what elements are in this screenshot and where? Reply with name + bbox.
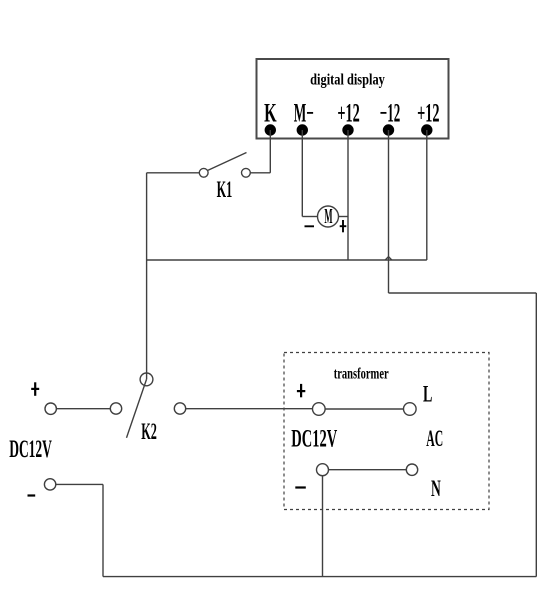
wire motor right	[339, 216, 349, 218]
switch K2 right contact	[174, 403, 185, 414]
svg-text:K1: K1	[217, 177, 233, 203]
svg-text:K: K	[264, 99, 277, 128]
wire K2 to transformer	[186, 408, 313, 410]
svg-text:M: M	[324, 206, 332, 228]
svg-text:transformer: transformer	[334, 364, 389, 382]
wire + to L	[325, 408, 403, 410]
motor minus sign	[305, 225, 315, 227]
terminal dot K	[265, 124, 276, 135]
wire right vertical	[535, 293, 537, 577]
svg-text:digital display: digital display	[310, 71, 385, 89]
svg-text:K2: K2	[141, 419, 157, 445]
svg-text:N: N	[431, 476, 441, 502]
motor M circle	[318, 206, 339, 227]
transformer N terminal	[406, 464, 417, 475]
switch K2 blade	[127, 379, 147, 437]
wire bottom bus	[103, 576, 536, 578]
transformer plus sign	[300, 384, 302, 397]
motor plus sign	[340, 225, 347, 227]
svg-text:DC12V: DC12V	[291, 426, 337, 453]
svg-text:M−: M−	[294, 100, 314, 128]
wire +12a terminal down	[347, 130, 349, 260]
terminal dot -12	[383, 124, 394, 135]
terminal dot M-	[297, 124, 308, 135]
switch K1 blade	[208, 153, 247, 171]
svg-text:L: L	[423, 382, 432, 407]
transformer minus sign	[295, 486, 306, 488]
transformer - terminal	[317, 464, 329, 476]
terminal dot +12b	[421, 124, 432, 135]
transformer + terminal	[313, 403, 326, 416]
wire -12 horizontal	[389, 292, 537, 294]
wire left vertical	[146, 173, 148, 380]
wire +12b terminal down	[426, 130, 428, 260]
wire M- terminal down	[301, 130, 303, 217]
svg-text:+12: +12	[337, 98, 359, 128]
wire motor left	[302, 216, 317, 218]
wire hop at crossing	[385, 257, 392, 260]
DC12V minus sign	[28, 494, 36, 496]
switch K2 pivot contact	[140, 373, 153, 386]
terminal dot +12a	[342, 124, 353, 135]
wire - terminal down	[102, 484, 104, 576]
wire - terminal right	[56, 483, 103, 485]
switch K2 left contact	[110, 403, 121, 414]
wire K1 right	[250, 172, 270, 174]
DC12V + terminal	[45, 403, 56, 414]
wire + terminal to K2	[56, 408, 110, 410]
svg-text:DC12V: DC12V	[9, 436, 52, 463]
DC12V plus sign	[34, 382, 36, 396]
wire - to N	[329, 469, 407, 471]
svg-text:−12: −12	[380, 100, 400, 128]
svg-text:+12: +12	[417, 98, 439, 128]
switch K1 left contact	[199, 168, 208, 177]
wire -12 terminal down	[388, 130, 390, 293]
switch K1 right contact	[242, 168, 251, 177]
transformer dashed box	[284, 353, 489, 510]
wire K terminal down	[269, 130, 271, 173]
digital display box U1	[257, 59, 449, 139]
wire - terminal down to bottom bus	[322, 476, 324, 577]
svg-text:AC: AC	[426, 426, 443, 451]
wire to K1 left	[147, 172, 200, 174]
DC12V - terminal	[44, 479, 55, 490]
wire main horizontal bus	[147, 259, 427, 261]
transformer L terminal	[404, 403, 417, 416]
